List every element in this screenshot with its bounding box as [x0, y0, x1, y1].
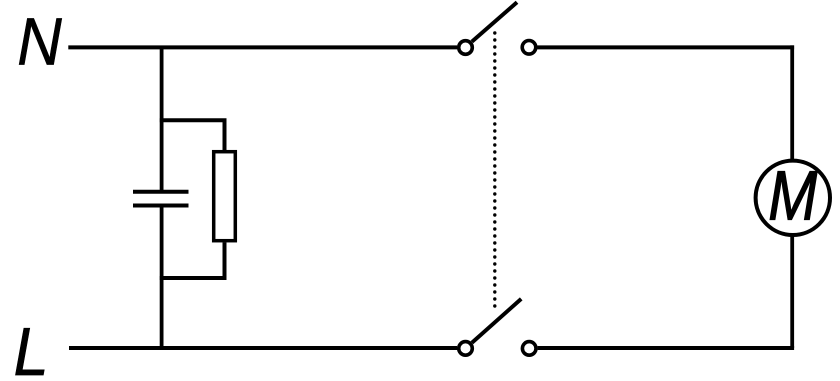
switch linkage dotted line	[493, 33, 496, 307]
switch S1a contact circle right	[522, 41, 536, 55]
resistor R1	[214, 152, 236, 241]
wire N line right segment	[537, 45, 794, 49]
wire resistor branch top	[160, 120, 225, 151]
switch S1b lever	[472, 299, 521, 343]
wire right vertical lower	[790, 236, 794, 348]
wire N line left segment	[68, 45, 457, 49]
wire left vertical lower	[160, 208, 164, 351]
wire left vertical upper	[160, 46, 164, 191]
svg-text:L: L	[14, 314, 49, 381]
capacitor C1 bottom plate	[133, 204, 189, 208]
svg-text:N: N	[17, 4, 62, 79]
switch S1b contact circle left	[459, 342, 473, 356]
switch S1a contact circle left	[459, 41, 473, 55]
svg-text:M: M	[768, 155, 817, 234]
motor M1 circle	[756, 161, 830, 235]
wire right vertical upper	[790, 45, 794, 160]
wire L line right segment	[538, 346, 795, 350]
motor M1 letter	[768, 155, 817, 234]
switch S1b contact circle right	[522, 342, 536, 356]
node N label	[17, 4, 62, 79]
node L label	[14, 314, 49, 381]
wire resistor branch bottom	[160, 243, 225, 279]
switch S1a lever	[472, 2, 517, 41]
capacitor C1 top plate	[133, 190, 189, 194]
wire L line left segment	[69, 346, 457, 350]
